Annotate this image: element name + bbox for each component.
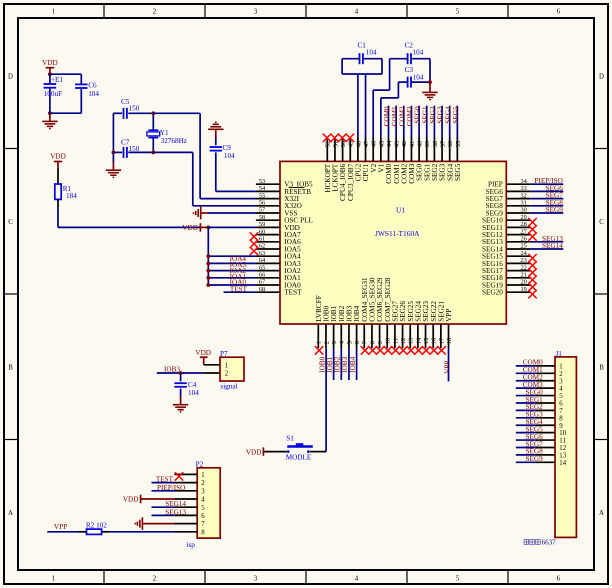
svg-text:104: 104 — [188, 389, 199, 397]
svg-text:6: 6 — [559, 401, 563, 408]
svg-text:24: 24 — [521, 250, 528, 257]
svg-text:7: 7 — [559, 408, 563, 415]
svg-text:IOB3: IOB3 — [164, 365, 180, 373]
svg-text:5: 5 — [456, 8, 460, 15]
svg-text:PIEP/ISO: PIEP/ISO — [157, 484, 185, 492]
svg-text:58: 58 — [259, 214, 265, 221]
svg-text:55: 55 — [259, 192, 265, 199]
svg-text:2: 2 — [201, 480, 205, 487]
svg-text:18: 18 — [446, 338, 453, 345]
svg-text:U1: U1 — [396, 206, 405, 215]
svg-text:SEG13: SEG13 — [165, 508, 186, 516]
svg-text:1: 1 — [316, 341, 323, 344]
svg-text:26: 26 — [521, 236, 527, 243]
svg-text:9: 9 — [377, 341, 384, 344]
svg-text:SEG5: SEG5 — [452, 106, 460, 124]
svg-text:SEG9: SEG9 — [526, 455, 544, 463]
svg-text:3: 3 — [559, 378, 563, 385]
svg-text:SEG20: SEG20 — [482, 289, 503, 297]
svg-text:4: 4 — [355, 575, 359, 582]
svg-text:68: 68 — [259, 286, 265, 293]
svg-text:C: C — [8, 219, 13, 226]
svg-text:7: 7 — [201, 521, 205, 528]
svg-text:13: 13 — [408, 338, 415, 345]
svg-text:16: 16 — [431, 337, 438, 344]
svg-text:45: 45 — [378, 141, 385, 148]
svg-text:14: 14 — [415, 337, 422, 344]
svg-text:37: 37 — [439, 140, 446, 147]
svg-text:2: 2 — [559, 371, 563, 378]
svg-text:C3: C3 — [405, 66, 414, 74]
svg-text:28: 28 — [521, 221, 527, 228]
svg-text:VDD: VDD — [50, 153, 66, 161]
svg-text:10: 10 — [559, 430, 566, 437]
svg-text:12: 12 — [400, 338, 407, 345]
svg-text:42: 42 — [401, 141, 408, 148]
svg-text:57: 57 — [259, 207, 265, 214]
svg-text:8: 8 — [369, 341, 376, 344]
svg-text:56: 56 — [259, 200, 265, 207]
svg-text:C9: C9 — [223, 144, 232, 152]
svg-text:38: 38 — [432, 141, 439, 148]
svg-text:14: 14 — [559, 460, 566, 467]
svg-text:47: 47 — [363, 140, 370, 147]
svg-text:4: 4 — [559, 386, 563, 393]
svg-text:20: 20 — [521, 279, 527, 286]
svg-text:2: 2 — [323, 341, 330, 344]
svg-text:63: 63 — [259, 250, 265, 257]
svg-text:5: 5 — [456, 575, 460, 582]
svg-text:SEG14: SEG14 — [542, 242, 563, 250]
svg-text:1: 1 — [52, 575, 55, 582]
svg-text:4: 4 — [201, 497, 205, 504]
svg-text:66: 66 — [259, 272, 265, 279]
svg-text:P2: P2 — [196, 460, 204, 468]
svg-text:15: 15 — [423, 338, 430, 345]
svg-text:1: 1 — [52, 8, 55, 15]
svg-text:signal: signal — [220, 383, 237, 391]
svg-text:104: 104 — [413, 49, 424, 57]
svg-text:44: 44 — [386, 140, 393, 147]
svg-text:23: 23 — [521, 257, 527, 264]
svg-text:17: 17 — [438, 337, 445, 344]
svg-text:3: 3 — [201, 488, 205, 495]
svg-text:D: D — [599, 73, 604, 80]
svg-text:27: 27 — [521, 228, 527, 235]
svg-text:P7: P7 — [220, 350, 228, 358]
svg-text:2: 2 — [153, 575, 157, 582]
svg-text:34: 34 — [521, 178, 528, 185]
svg-text:25: 25 — [521, 243, 527, 250]
svg-text:21: 21 — [521, 272, 527, 279]
svg-text:JWS11-T160A: JWS11-T160A — [375, 229, 420, 238]
svg-text:5: 5 — [559, 393, 563, 400]
svg-text:64: 64 — [259, 257, 266, 264]
svg-text:IOB4: IOB4 — [349, 356, 357, 372]
svg-text:35: 35 — [455, 141, 462, 148]
svg-text:5: 5 — [201, 505, 205, 512]
svg-text:40: 40 — [417, 141, 424, 148]
svg-text:9: 9 — [559, 423, 563, 430]
svg-text:3: 3 — [331, 341, 338, 344]
svg-text:104: 104 — [224, 152, 235, 160]
svg-text:11: 11 — [559, 438, 566, 445]
svg-text:VPP: VPP — [54, 523, 67, 531]
svg-text:65: 65 — [259, 264, 265, 271]
svg-text:SEG9: SEG9 — [546, 206, 564, 214]
svg-text:46: 46 — [371, 140, 378, 147]
svg-text:59: 59 — [259, 221, 265, 228]
svg-text:4: 4 — [355, 8, 359, 15]
svg-text:3: 3 — [254, 8, 258, 15]
svg-text:6: 6 — [557, 575, 561, 582]
svg-text:22: 22 — [521, 264, 527, 271]
svg-text:VPP: VPP — [444, 361, 452, 374]
svg-text:6637: 6637 — [542, 539, 557, 547]
svg-text:184: 184 — [66, 192, 77, 200]
svg-text:C6: C6 — [88, 82, 97, 90]
svg-text:33: 33 — [521, 185, 527, 192]
svg-text:53: 53 — [259, 178, 265, 185]
svg-text:8: 8 — [559, 415, 563, 422]
svg-text:isp: isp — [187, 541, 196, 549]
svg-text:11: 11 — [392, 338, 399, 344]
svg-text:32768Hz: 32768Hz — [161, 137, 187, 145]
svg-text:8: 8 — [201, 529, 205, 536]
svg-text:5: 5 — [346, 341, 353, 344]
svg-text:+E1: +E1 — [51, 76, 63, 84]
svg-text:SEG14: SEG14 — [165, 500, 186, 508]
svg-text:C: C — [599, 219, 604, 226]
svg-text:13: 13 — [559, 452, 566, 459]
svg-text:6: 6 — [201, 513, 205, 520]
svg-text:1: 1 — [201, 472, 204, 479]
svg-text:VDD: VDD — [182, 224, 198, 232]
svg-text:1: 1 — [225, 363, 228, 370]
svg-text:30: 30 — [521, 207, 527, 214]
svg-text:VDD: VDD — [42, 59, 58, 67]
svg-text:S1: S1 — [286, 435, 294, 443]
svg-text:A: A — [8, 510, 13, 517]
svg-text:48: 48 — [355, 141, 362, 148]
svg-text:MODLE: MODLE — [286, 454, 312, 462]
svg-text:150: 150 — [129, 104, 140, 112]
svg-text:60: 60 — [259, 228, 265, 235]
svg-text:VDD: VDD — [246, 448, 262, 456]
svg-text:3: 3 — [254, 575, 258, 582]
svg-text:VDD: VDD — [195, 349, 211, 357]
svg-text:TEST: TEST — [230, 286, 248, 294]
svg-text:31: 31 — [521, 200, 527, 207]
svg-text:VPP: VPP — [445, 309, 453, 322]
svg-text:62: 62 — [259, 243, 265, 250]
svg-text:29: 29 — [521, 214, 527, 221]
svg-text:J1: J1 — [556, 350, 563, 358]
svg-text:104: 104 — [413, 74, 424, 82]
svg-text:39: 39 — [424, 141, 431, 148]
svg-text:TEST: TEST — [284, 289, 302, 297]
svg-text:100uF: 100uF — [44, 90, 62, 98]
svg-text:41: 41 — [409, 141, 416, 148]
svg-text:67: 67 — [259, 279, 265, 286]
svg-text:104: 104 — [366, 49, 377, 57]
svg-text:104: 104 — [88, 90, 99, 98]
svg-text:Y1: Y1 — [160, 129, 169, 137]
svg-text:6: 6 — [557, 8, 561, 15]
svg-text:2: 2 — [153, 8, 157, 15]
svg-text:36: 36 — [447, 140, 454, 147]
svg-text:54: 54 — [259, 185, 266, 192]
svg-text:2: 2 — [225, 371, 229, 378]
svg-text:12: 12 — [559, 445, 566, 452]
svg-text:SEG5: SEG5 — [454, 163, 462, 181]
svg-text:A: A — [599, 510, 604, 517]
svg-text:10: 10 — [385, 338, 392, 345]
svg-text:61: 61 — [259, 236, 265, 243]
svg-text:1: 1 — [559, 364, 562, 371]
svg-text:B: B — [8, 364, 13, 371]
svg-text:TEST: TEST — [156, 476, 174, 484]
svg-text:B: B — [599, 364, 604, 371]
svg-text:VDD: VDD — [123, 496, 139, 504]
svg-text:D: D — [8, 73, 13, 80]
svg-text:150: 150 — [129, 145, 140, 153]
svg-text:43: 43 — [394, 141, 401, 148]
svg-text:19: 19 — [521, 286, 527, 293]
svg-text:R2 102: R2 102 — [86, 521, 107, 529]
svg-text:32: 32 — [521, 192, 527, 199]
